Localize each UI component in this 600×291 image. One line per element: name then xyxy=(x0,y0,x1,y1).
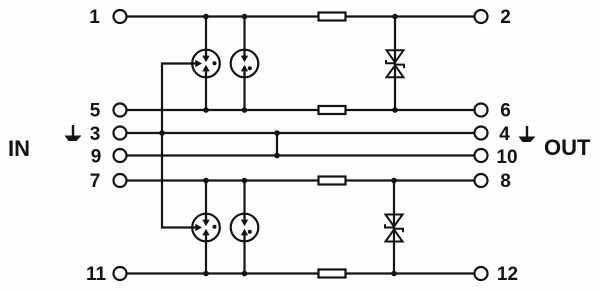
gas discharge tube, 2-electrode, bottom right xyxy=(231,214,259,242)
terminal 11 xyxy=(114,267,127,280)
junction row5 x206 xyxy=(203,107,209,113)
gas discharge tube, 2-electrode, top right xyxy=(231,50,259,78)
svg-text:8: 8 xyxy=(500,171,511,192)
resistor (rows 1-2) xyxy=(319,13,346,21)
terminal 10 xyxy=(475,149,488,162)
wire vertical GDT branch right bottom (rows 7 to 11) xyxy=(243,181,245,274)
junction row1 x395 xyxy=(392,14,398,20)
svg-text:11: 11 xyxy=(86,264,107,285)
terminal 3 xyxy=(114,127,127,140)
terminal 8 xyxy=(475,174,488,187)
terminal 5 xyxy=(114,104,127,117)
junction row8 x394 xyxy=(391,178,397,184)
terminal 12 xyxy=(475,267,488,280)
svg-text:5: 5 xyxy=(90,101,101,122)
wire link row 3 to row 9 xyxy=(276,133,278,156)
suppressor diode, bidirectional, top (rows 1-6) xyxy=(386,50,404,77)
terminal 1 xyxy=(114,10,127,23)
terminal 7 xyxy=(114,174,127,187)
suppressor diode, bidirectional, bottom (rows 8-12) xyxy=(385,215,403,242)
svg-text:1: 1 xyxy=(89,7,100,28)
ground symbol left (at pin 3) xyxy=(65,125,82,141)
junction row1 x206 xyxy=(203,14,209,20)
svg-text:IN: IN xyxy=(8,136,30,161)
junction row3 x162 xyxy=(159,130,165,136)
junction row7 x244.5 xyxy=(242,178,248,184)
wire vertical suppressor branch top (rows 1 to 6) xyxy=(394,17,396,111)
wire row 9-10 xyxy=(127,154,474,156)
wire row 7-8 xyxy=(127,179,474,181)
svg-text:12: 12 xyxy=(497,264,518,285)
svg-text:10: 10 xyxy=(496,147,517,168)
junction row1 x244.5 xyxy=(242,14,248,20)
wire vertical suppressor branch bottom (rows 8 to 12) xyxy=(393,181,395,274)
svg-text:6: 6 xyxy=(500,101,511,122)
wire row 5-6 xyxy=(127,109,474,111)
wire vertical GDT branch right top (rows 1 to 5) xyxy=(243,17,245,111)
svg-text:2: 2 xyxy=(500,7,511,28)
terminal 4 xyxy=(475,127,488,140)
junction row7 x206 xyxy=(203,178,209,184)
resistor (rows 5-6) xyxy=(319,106,346,114)
junction row3 x277 xyxy=(274,130,280,136)
svg-text:OUT: OUT xyxy=(544,135,591,160)
ground symbol right (at pin 4) xyxy=(519,126,536,142)
junction row6 x395 xyxy=(392,107,398,113)
junction row9 x277 xyxy=(274,153,280,159)
wire vertical GDT branch left top (rows 1 to 5) xyxy=(205,17,207,111)
wire row 3-4 xyxy=(127,132,474,134)
wire row 1-2 xyxy=(127,15,474,17)
junction row11 x244.5 xyxy=(242,271,248,277)
resistor (rows 11-12) xyxy=(319,270,346,278)
wire center electrode bus (GDT centers to node on row 3) xyxy=(162,64,192,228)
wire vertical GDT branch left bottom (rows 7 to 11) xyxy=(205,181,207,274)
terminal 9 xyxy=(114,149,127,162)
terminal 2 xyxy=(475,10,488,23)
junction row5 x244.5 xyxy=(242,107,248,113)
gas discharge tube, 3-electrode, bottom left xyxy=(192,214,220,242)
svg-text:4: 4 xyxy=(499,124,510,145)
svg-text:9: 9 xyxy=(91,147,102,168)
gas discharge tube, 3-electrode, top left xyxy=(192,50,220,78)
svg-text:7: 7 xyxy=(90,171,101,192)
junction row11 x206 xyxy=(203,271,209,277)
terminal 6 xyxy=(475,104,488,117)
svg-text:3: 3 xyxy=(90,124,101,145)
resistor (rows 7-8) xyxy=(319,177,346,185)
wire row 11-12 xyxy=(127,272,474,274)
junction row12 x394 xyxy=(391,271,397,277)
